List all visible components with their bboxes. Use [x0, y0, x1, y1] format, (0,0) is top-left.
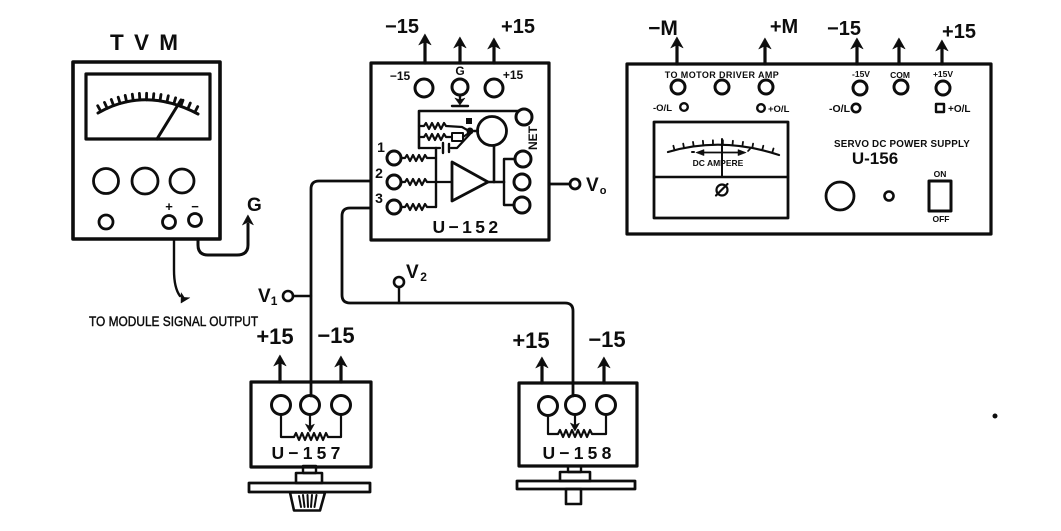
svg-text:OFF: OFF	[933, 214, 950, 224]
svg-text:−15: −15	[827, 18, 861, 40]
svg-text:TO MODULE SIGNAL OUTPUT: TO MODULE SIGNAL OUTPUT	[89, 313, 258, 329]
svg-text:ON: ON	[934, 169, 947, 179]
svg-text:3: 3	[375, 190, 383, 206]
svg-text:−: −	[191, 199, 199, 214]
svg-text:−M: −M	[648, 17, 678, 40]
svg-text:-15V: -15V	[852, 69, 870, 79]
svg-text:−15: −15	[588, 327, 625, 352]
svg-text:+: +	[165, 199, 173, 214]
svg-text:-O/L: -O/L	[653, 103, 672, 114]
svg-text:Vo: Vo	[586, 175, 607, 197]
svg-text:−15: −15	[317, 323, 354, 348]
svg-text:+O/L: +O/L	[948, 104, 971, 115]
svg-text:G: G	[247, 195, 262, 216]
svg-text:+M: +M	[770, 16, 798, 38]
svg-text:G: G	[455, 64, 464, 78]
svg-text:V2: V2	[406, 262, 427, 284]
svg-text:−15: −15	[390, 69, 411, 83]
svg-text:U−158: U−158	[542, 443, 615, 463]
svg-text:−15: −15	[385, 16, 419, 38]
svg-text:TO MOTOR DRIVER AMP: TO MOTOR DRIVER AMP	[665, 70, 779, 80]
svg-text:U-156: U-156	[852, 149, 898, 168]
svg-text:1: 1	[377, 139, 385, 155]
svg-text:+15: +15	[512, 328, 549, 353]
svg-text:NET: NET	[526, 125, 540, 150]
svg-text:V1: V1	[258, 286, 278, 308]
svg-text:+15: +15	[503, 68, 524, 82]
svg-text:DC AMPERE: DC AMPERE	[693, 158, 744, 168]
svg-text:U−157: U−157	[271, 443, 344, 463]
svg-text:+15: +15	[256, 324, 293, 349]
svg-text:+O/L: +O/L	[768, 104, 790, 115]
svg-text:T V M: T V M	[110, 30, 180, 55]
svg-text:+15: +15	[501, 16, 535, 38]
svg-text:+15: +15	[942, 21, 976, 43]
svg-text:COM: COM	[890, 70, 910, 80]
svg-text:U−152: U−152	[432, 217, 501, 237]
svg-text:-O/L: -O/L	[829, 103, 851, 115]
svg-text:+15V: +15V	[933, 69, 953, 79]
svg-text:2: 2	[375, 165, 383, 181]
